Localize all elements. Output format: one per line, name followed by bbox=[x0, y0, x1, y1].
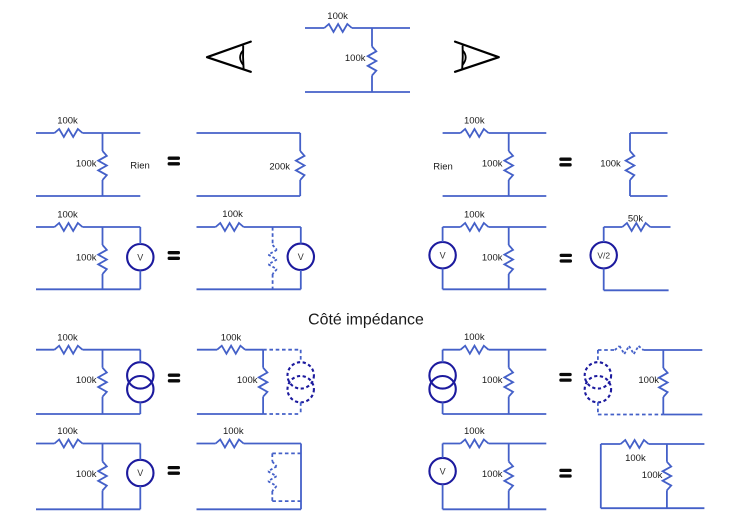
svg-text:100k: 100k bbox=[600, 158, 621, 169]
equivalence sign = bbox=[560, 254, 572, 263]
current source I1 bbox=[127, 362, 153, 402]
resistor R2 100k (top shunt) bbox=[368, 28, 377, 92]
svg-text:100k: 100k bbox=[464, 115, 485, 126]
svg-text:100k: 100k bbox=[57, 332, 78, 343]
svg-text:100k: 100k bbox=[482, 252, 503, 263]
wire V4 top lead bbox=[603, 227, 605, 242]
wire V5 top lead bbox=[139, 444, 141, 460]
wire bottom rail bbox=[443, 288, 547, 290]
svg-text:V: V bbox=[137, 252, 143, 262]
equivalence sign = bbox=[168, 157, 180, 166]
wire I3 bottom lead bbox=[442, 402, 444, 414]
wire bottom rail bbox=[443, 195, 547, 197]
svg-text:V: V bbox=[137, 468, 143, 478]
resistor R31 100k (shunt) bbox=[663, 444, 672, 508]
svg-text:100k: 100k bbox=[464, 332, 485, 343]
equivalence sign = bbox=[168, 374, 180, 383]
voltage source V5 bbox=[127, 460, 153, 486]
svg-text:V/2: V/2 bbox=[597, 250, 610, 260]
svg-text:100k: 100k bbox=[222, 209, 243, 220]
resistor R4 100k (shunt) bbox=[98, 133, 107, 196]
svg-text:100k: 100k bbox=[482, 375, 503, 386]
svg-text:100k: 100k bbox=[57, 210, 78, 221]
resistor R11 100k (series) bbox=[197, 223, 301, 231]
voltmeter V2 bbox=[288, 244, 314, 270]
svg-text:V: V bbox=[440, 250, 446, 260]
wire bottom lead (100k circuit) bbox=[630, 195, 668, 197]
wire V3 top lead bbox=[442, 227, 444, 242]
svg-text:100k: 100k bbox=[482, 469, 503, 480]
svg-text:50k: 50k bbox=[628, 214, 644, 225]
voltage source V3 bbox=[429, 242, 455, 268]
right eye symbol (observer looking from output side) bbox=[455, 42, 499, 72]
wire I3 top lead bbox=[442, 350, 444, 363]
wire dashed top link to suppressed source bbox=[263, 349, 301, 351]
svg-text:100k: 100k bbox=[482, 158, 503, 169]
resistor R27 (internal, dashed) bbox=[268, 453, 277, 501]
resistor R1 100k (top series) bbox=[305, 24, 410, 32]
svg-text:100k: 100k bbox=[464, 209, 485, 220]
resistor R19 100k (shunt) bbox=[259, 350, 268, 414]
wire right edge bbox=[300, 444, 302, 510]
wire I2 bottom lead (dashed) bbox=[300, 402, 302, 414]
wire I4 bottom lead (dashed) bbox=[597, 402, 599, 414]
wire V2 bottom lead bbox=[300, 270, 302, 289]
svg-text:100k: 100k bbox=[57, 116, 78, 127]
wire V1 top lead bbox=[139, 227, 141, 244]
resistor R22 (series, suppressed, dashed) bbox=[598, 346, 643, 354]
resistor R7 100k (shunt) bbox=[504, 133, 513, 196]
equivalence sign = bbox=[168, 466, 180, 475]
svg-text:100k: 100k bbox=[638, 375, 659, 386]
svg-text:100k: 100k bbox=[642, 470, 663, 481]
wire bottom rail bbox=[601, 507, 705, 509]
wire top lead (100k circuit) bbox=[630, 132, 668, 134]
equivalence sign = bbox=[559, 158, 571, 167]
svg-text:Côté impédance: Côté impédance bbox=[308, 312, 424, 329]
svg-text:100k: 100k bbox=[625, 453, 646, 464]
wire bottom rail bbox=[197, 508, 302, 510]
wire V1 bottom lead bbox=[139, 270, 141, 289]
wire top rail (solid) bbox=[643, 349, 702, 351]
svg-text:100k: 100k bbox=[464, 426, 485, 437]
wire bottom rail bbox=[36, 288, 140, 290]
svg-text:100k: 100k bbox=[76, 469, 97, 480]
wire bottom rail (V/2 circuit) bbox=[604, 289, 669, 291]
wire bottom rail bbox=[36, 508, 140, 510]
resistor R16 100k (series) bbox=[36, 346, 140, 354]
resistor R24 100k (series) bbox=[36, 440, 140, 448]
wire bottom rail bbox=[197, 288, 301, 290]
resistor R28 100k (series) bbox=[443, 440, 547, 448]
svg-text:100k: 100k bbox=[221, 333, 242, 344]
wire V2 top lead bbox=[300, 227, 302, 244]
current source I2 (suppressed, dashed) bbox=[288, 362, 314, 402]
wire bottom rail bbox=[197, 413, 263, 415]
resistor R13 100k (series) bbox=[443, 223, 547, 231]
resistor R10 100k (shunt) bbox=[98, 227, 107, 289]
wire bottom rail bbox=[443, 508, 547, 510]
resistor R5 200k bbox=[296, 133, 305, 196]
current source I3 bbox=[429, 362, 455, 402]
wire V6 bottom lead bbox=[442, 484, 444, 509]
resistor R18 100k (series) bbox=[197, 346, 263, 354]
resistor R6 100k (series) bbox=[443, 129, 547, 137]
wire dashed bottom link to suppressed source bbox=[263, 413, 301, 415]
voltage source V4 (V/2) bbox=[591, 242, 617, 268]
equivalence sign = bbox=[559, 373, 571, 382]
wire bottom rail bbox=[443, 413, 547, 415]
svg-text:V: V bbox=[440, 466, 446, 476]
resistor R26 100k (series) bbox=[197, 440, 302, 448]
wire I2 top lead (dashed) bbox=[300, 350, 302, 363]
wire top rail (200k circuit) bbox=[197, 132, 301, 134]
resistor R23 100k (shunt) bbox=[659, 350, 668, 415]
svg-text:100k: 100k bbox=[57, 426, 78, 437]
resistor R8 100k bbox=[626, 133, 635, 196]
svg-text:100k: 100k bbox=[327, 11, 348, 22]
svg-text:100k: 100k bbox=[237, 375, 258, 386]
wire bottom rail bbox=[36, 195, 140, 197]
svg-text:100k: 100k bbox=[223, 426, 244, 437]
wire top circuit bottom rail bbox=[305, 91, 410, 93]
resistor R21 100k (shunt) bbox=[504, 350, 513, 414]
resistor R25 100k (shunt) bbox=[98, 444, 107, 510]
resistor R9 100k (series) bbox=[36, 223, 140, 231]
wire bottom rail bbox=[36, 413, 140, 415]
svg-text:V: V bbox=[298, 252, 304, 262]
resistor R20 100k (series) bbox=[443, 346, 547, 354]
svg-text:200k: 200k bbox=[269, 162, 290, 173]
resistor R29 100k (shunt) bbox=[504, 444, 513, 510]
resistor R12 (internal, dashed) bbox=[268, 227, 277, 289]
left eye symbol (observer looking from input side) bbox=[207, 42, 251, 72]
wire V4 bottom lead bbox=[603, 268, 605, 290]
resistor R3 100k (series) bbox=[36, 129, 140, 137]
wire dashed bottom link bbox=[598, 414, 663, 416]
wire V5 bottom lead bbox=[139, 486, 141, 509]
svg-text:100k: 100k bbox=[76, 158, 97, 169]
equivalence sign = bbox=[168, 251, 180, 260]
wire I1 top lead bbox=[139, 350, 141, 363]
wire I1 bottom lead bbox=[139, 402, 141, 414]
voltage source V6 bbox=[429, 458, 455, 484]
wire V6 top lead bbox=[442, 444, 444, 458]
voltmeter V1 (measuring output) bbox=[127, 244, 153, 270]
resistor R14 100k (shunt) bbox=[504, 227, 513, 289]
wire dashed bottom link (internal) bbox=[272, 500, 301, 502]
wire I4 top lead (dashed) bbox=[597, 350, 599, 362]
wire V3 bottom lead bbox=[442, 268, 444, 289]
svg-text:Rien: Rien bbox=[130, 161, 150, 172]
svg-text:100k: 100k bbox=[76, 375, 97, 386]
svg-text:100k: 100k bbox=[76, 252, 97, 263]
wire dashed top link (internal) bbox=[272, 452, 301, 454]
resistor R17 100k (shunt) bbox=[98, 350, 107, 414]
current source I4 (suppressed, dashed) bbox=[585, 362, 611, 402]
equivalence sign = bbox=[559, 469, 571, 478]
wire bottom rail (200k circuit) bbox=[197, 195, 301, 197]
resistor R30 100k (series) bbox=[601, 440, 705, 448]
svg-text:Rien: Rien bbox=[433, 161, 453, 172]
svg-text:100k: 100k bbox=[345, 53, 366, 64]
wire left edge bbox=[600, 444, 602, 508]
wire bottom rail (solid) bbox=[663, 414, 702, 416]
resistor R15 50k (series) bbox=[604, 223, 671, 231]
